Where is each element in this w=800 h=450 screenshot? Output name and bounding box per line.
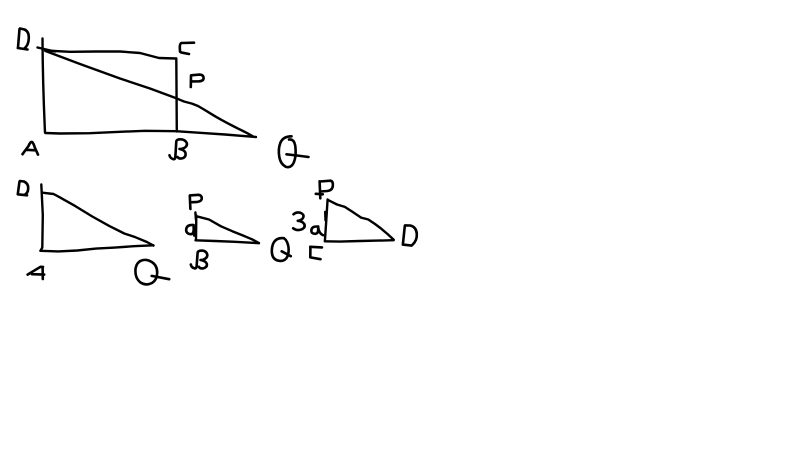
label C (rectangle) (180, 43, 194, 54)
label C (right triangle) (310, 247, 322, 259)
bottom edge A-B-Q (45, 131, 256, 137)
triangle PBQ left edge (195, 216, 198, 241)
label P (right triangle) (316, 181, 333, 199)
label P (on diagonal) (191, 75, 204, 87)
rectangle right edge CB (175, 59, 178, 132)
label B (middle triangle) (191, 251, 208, 269)
angle mark a (right triangle) (311, 226, 323, 235)
triangle PCD hypotenuse (328, 200, 393, 239)
corner tick at D (38, 48, 56, 52)
angle mark a (middle triangle) (186, 225, 194, 236)
label D (rectangle top-left) (18, 29, 29, 50)
label D (left triangle) (18, 181, 28, 195)
label Q (left triangle) (135, 260, 169, 285)
label Q (middle triangle) (272, 238, 291, 261)
triangle PCD bottom edge (325, 240, 394, 241)
triangle DAQ hypotenuse (42, 193, 153, 246)
tick under P (middle triangle) (194, 212, 197, 219)
label P (middle triangle) (190, 195, 202, 209)
triangle DAQ bottom edge (40, 245, 153, 251)
diagonal D-P-Q (46, 51, 254, 136)
triangle DAQ left edge (41, 184, 43, 250)
rectangle top edge DC (45, 51, 176, 59)
rectangle left edge AD (43, 39, 46, 133)
tick inside (right triangle) (324, 212, 327, 221)
triangle PBQ hypotenuse (198, 217, 259, 243)
triangle PBQ bottom edge (196, 240, 260, 243)
label B (script, rectangle bottom) (170, 139, 187, 159)
label A (rectangle bottom-left) (23, 142, 39, 155)
label 3 (right triangle) (293, 212, 304, 230)
label Q (right of big figure) (279, 136, 309, 167)
triangle PCD left edge (325, 199, 328, 240)
label A (left triangle) (28, 267, 45, 279)
label D (right triangle) (403, 225, 417, 245)
